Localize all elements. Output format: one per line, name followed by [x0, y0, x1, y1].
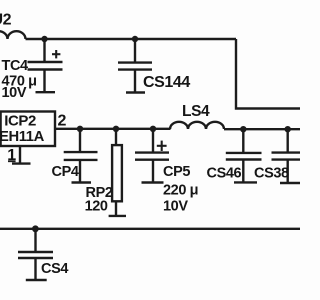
node — [32, 225, 39, 232]
inductor LS4 — [170, 122, 224, 129]
ground — [12, 162, 31, 164]
svg-text:220 μ: 220 μ — [163, 183, 198, 199]
node — [41, 36, 47, 42]
pin 1 — [19, 146, 21, 164]
svg-text:2: 2 — [58, 113, 67, 130]
svg-text:TC4: TC4 — [2, 58, 29, 74]
ground — [72, 181, 92, 183]
capacitor CS144 — [118, 39, 152, 92]
svg-text:ICP2: ICP2 — [4, 112, 36, 129]
ground — [280, 182, 301, 184]
svg-text:10V: 10V — [163, 199, 188, 215]
capacitor TC4 — [28, 39, 63, 92]
wire — [224, 128, 301, 130]
svg-text:U2: U2 — [0, 12, 12, 29]
inductor U2 — [0, 31, 26, 39]
wire — [236, 39, 301, 109]
resistor RP2 — [112, 129, 122, 216]
node — [285, 126, 291, 132]
svg-text:LS4: LS4 — [182, 103, 210, 120]
svg-text:1: 1 — [7, 147, 16, 164]
ground — [36, 91, 56, 93]
IC ICP2 EH11A — [1, 112, 55, 147]
node — [132, 36, 138, 42]
ground — [26, 279, 47, 281]
ground — [126, 91, 145, 93]
svg-text:CS4: CS4 — [41, 261, 68, 277]
svg-text:CP4: CP4 — [52, 164, 79, 180]
wire — [55, 128, 171, 130]
svg-text:120: 120 — [85, 199, 108, 215]
capacitor CS38 — [272, 129, 302, 183]
node — [113, 126, 119, 132]
svg-text:10V: 10V — [2, 85, 27, 101]
capacitor CP5 — [135, 129, 169, 183]
capacitor CP4 — [64, 129, 98, 183]
svg-text:CP5: CP5 — [163, 164, 190, 180]
capacitor CS46 — [226, 129, 262, 182]
pin 1 underline — [8, 160, 16, 162]
node — [150, 126, 156, 132]
svg-text:CS46: CS46 — [207, 166, 242, 182]
wire — [26, 38, 237, 40]
svg-text:CS38: CS38 — [254, 166, 289, 182]
node — [77, 126, 83, 132]
capacitor CS4 — [18, 229, 53, 280]
wire — [0, 228, 301, 230]
ground — [234, 181, 257, 183]
svg-text:EH11A: EH11A — [0, 129, 45, 145]
ground — [142, 181, 164, 183]
node — [240, 126, 246, 132]
ground — [109, 215, 126, 217]
svg-text:CS144: CS144 — [143, 74, 190, 91]
